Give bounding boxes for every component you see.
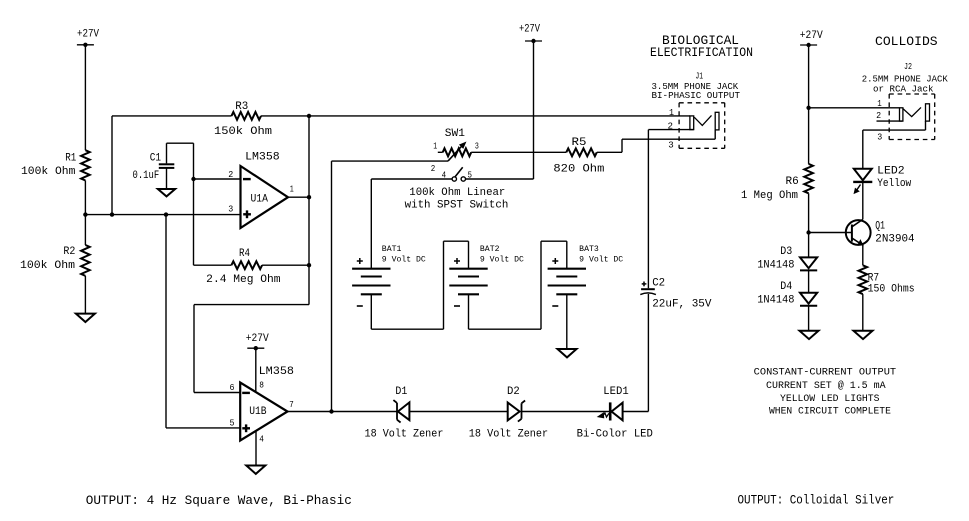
ground (below C1): [158, 189, 175, 196]
svg-text:D3: D3: [780, 246, 792, 258]
node base junction R6/D3/Q1: [806, 230, 810, 234]
svg-text:1: 1: [433, 141, 437, 151]
svg-text:0.1uF: 0.1uF: [133, 170, 160, 182]
svg-text:100k Ohm Linear: 100k Ohm Linear: [409, 187, 505, 199]
label BIOLOGICAL ELECTRIFICATION: [650, 33, 753, 60]
resistor R5: [553, 137, 604, 175]
ground (below D4): [800, 331, 819, 339]
power +27V rail (center): [519, 24, 542, 180]
svg-text:3: 3: [668, 140, 674, 151]
wire R6 to base node: [808, 193, 810, 232]
svg-text:2: 2: [228, 169, 233, 180]
resistor R3: [214, 101, 272, 138]
wire J2 pin 3 to LED2 column: [863, 121, 926, 130]
wire SPST pin 4 to BAT1 +: [370, 179, 372, 269]
svg-text:2.4 Meg Ohm: 2.4 Meg Ohm: [206, 274, 281, 286]
wire R5 to J1 pin 3: [597, 130, 715, 152]
wire D3 to D4: [808, 270, 810, 292]
resistor R7: [859, 265, 915, 295]
svg-text:7: 7: [289, 399, 294, 410]
wire +27V to R1: [84, 45, 86, 150]
wire SW1 wiper down to output node: [332, 161, 449, 411]
svg-text:D1: D1: [395, 386, 407, 398]
svg-text:+27V: +27V: [800, 30, 823, 42]
svg-text:Bi-Color LED: Bi-Color LED: [577, 429, 654, 441]
node +27V/J2 pin1 junction: [806, 106, 810, 110]
resistor R1: [21, 150, 90, 180]
svg-text:1: 1: [877, 98, 882, 109]
battery BAT3: [548, 245, 624, 306]
svg-text:LM358: LM358: [245, 151, 280, 163]
svg-text:CONSTANT-CURRENT OUTPUT: CONSTANT-CURRENT OUTPUT: [754, 368, 896, 379]
svg-text:3: 3: [228, 204, 233, 215]
battery BAT2: [449, 245, 524, 306]
power +27V rail (left): [77, 29, 99, 48]
wire base node to Q1 base: [809, 232, 852, 234]
diode D1 18V zener: [365, 386, 444, 440]
svg-text:2: 2: [431, 164, 436, 174]
capacitor C1: [133, 143, 194, 189]
switch SW1 SPST contacts: [371, 167, 533, 181]
node pin2 junction: [191, 177, 195, 181]
ground (below U1B): [246, 466, 265, 474]
ground (below R2): [76, 314, 95, 322]
svg-text:BI-PHASIC OUTPUT: BI-PHASIC OUTPUT: [652, 91, 741, 101]
svg-text:1: 1: [290, 184, 294, 195]
node B junction R3/output column: [307, 114, 311, 118]
wire U1A pin 1 output: [288, 195, 311, 199]
node pin7/SW1 junction: [329, 409, 333, 413]
svg-text:5: 5: [230, 417, 235, 428]
svg-text:4: 4: [259, 434, 264, 445]
wire BAT2 - to BAT3 +: [469, 241, 567, 329]
svg-text:150 Ohms: 150 Ohms: [868, 283, 915, 295]
diode D3 1N4148: [757, 246, 817, 271]
svg-text:100k Ohm: 100k Ohm: [20, 260, 75, 272]
label output colloidal silver: [738, 492, 895, 507]
svg-text:WHEN CIRCUIT COMPLETE: WHEN CIRCUIT COMPLETE: [769, 407, 891, 418]
label COLLOIDS: [875, 34, 938, 49]
wire U1B pin 7 output: [288, 411, 398, 413]
svg-text:D2: D2: [507, 386, 520, 398]
connector J1 3.5mm phone jack: [652, 72, 741, 151]
power +27V (U1B pin 8): [246, 333, 269, 393]
wire LED2 to Q1 collector: [862, 182, 864, 220]
svg-text:2.5MM PHONE JACK: 2.5MM PHONE JACK: [862, 74, 948, 84]
potentiometer SW1: [405, 128, 509, 212]
svg-text:2: 2: [668, 120, 674, 131]
wire +27V down to R6: [808, 45, 810, 164]
svg-text:R1: R1: [65, 152, 76, 164]
svg-text:9 Volt DC: 9 Volt DC: [382, 256, 426, 265]
svg-text:1: 1: [669, 107, 674, 118]
svg-text:C2: C2: [652, 278, 665, 290]
svg-text:Yellow: Yellow: [877, 178, 911, 190]
svg-text:with SPST Switch: with SPST Switch: [405, 200, 509, 212]
wire U1B pin 4 to ground: [255, 431, 257, 466]
resistor R6: [741, 164, 813, 202]
svg-text:R6: R6: [786, 176, 799, 188]
svg-text:150k Ohm: 150k Ohm: [214, 126, 272, 138]
svg-text:3: 3: [877, 132, 882, 143]
svg-text:J2: J2: [904, 62, 912, 72]
svg-text:U1B: U1B: [249, 406, 267, 418]
wire R7 to ground: [862, 294, 864, 331]
battery BAT1: [352, 245, 426, 306]
wire LED1 up to C2 column: [623, 294, 649, 412]
wire D4 to ground: [808, 306, 810, 331]
label constant-current note: [754, 368, 896, 418]
svg-text:R2: R2: [63, 246, 75, 258]
svg-text:22uF, 35V: 22uF, 35V: [652, 299, 712, 311]
svg-text:YELLOW LED LIGHTS: YELLOW LED LIGHTS: [780, 394, 880, 405]
svg-text:CURRENT SET @ 1.5 mA: CURRENT SET @ 1.5 mA: [766, 380, 886, 392]
wire node A branch to U1B pin 5: [164, 212, 240, 427]
ground (below BAT3): [558, 349, 577, 357]
svg-text:R3: R3: [235, 101, 248, 113]
ground (below R7): [854, 331, 873, 339]
transistor Q1 2N3904: [846, 219, 915, 245]
wire C1 column down to pin2 and R4: [193, 143, 195, 265]
diode D2 18V zener: [469, 386, 548, 440]
wire C2 up to J1 pin 2: [648, 130, 693, 289]
op-amp U1B: [230, 366, 295, 445]
svg-text:BAT3: BAT3: [579, 245, 599, 254]
power +27V rail (right): [800, 30, 823, 47]
wire to J2 pin 1: [809, 107, 900, 109]
wire R2 to ground: [84, 276, 86, 314]
svg-text:8: 8: [259, 379, 264, 390]
wire output column x=309: [308, 116, 310, 305]
wire Q1 emitter to R7: [862, 245, 864, 265]
svg-text:J1: J1: [695, 72, 703, 82]
node A junction R1/R2/pin3: [83, 212, 87, 216]
svg-text:100k Ohm: 100k Ohm: [21, 166, 76, 178]
resistor R4: [194, 248, 312, 286]
svg-text:18 Volt Zener: 18 Volt Zener: [365, 429, 444, 441]
connector J2 2.5mm phone jack: [862, 62, 948, 143]
svg-text:9 Volt DC: 9 Volt DC: [480, 256, 524, 265]
capacitor C2 polarized: [640, 278, 712, 311]
wire to U1A pin 2: [194, 178, 241, 180]
svg-text:BAT1: BAT1: [382, 245, 402, 254]
svg-text:1N4148: 1N4148: [757, 260, 794, 272]
wire D1 to D2: [409, 411, 507, 413]
LED LED1 bi-color: [577, 386, 654, 440]
wire R3 to node B and on to J1 pin 1: [261, 115, 690, 117]
diode D4 1N4148: [757, 281, 817, 307]
svg-text:U1A: U1A: [251, 194, 269, 206]
wire J2 pin 3 down to LED2: [862, 130, 864, 169]
svg-text:+27V: +27V: [246, 333, 269, 345]
svg-text:D4: D4: [780, 281, 792, 293]
label output bi-phasic: [86, 493, 352, 508]
wire J2 pin 2 stub: [877, 120, 903, 122]
svg-text:6: 6: [230, 382, 235, 393]
svg-text:1 Meg Ohm: 1 Meg Ohm: [741, 190, 798, 202]
svg-text:9 Volt DC: 9 Volt DC: [579, 256, 623, 265]
svg-text:1N4148: 1N4148: [757, 295, 794, 307]
wire SW1 pin 3 to R5: [471, 151, 566, 153]
svg-text:BAT2: BAT2: [480, 245, 500, 254]
svg-text:R5: R5: [572, 137, 587, 149]
LED LED2 yellow: [853, 165, 911, 193]
svg-text:COLLOIDS: COLLOIDS: [875, 34, 938, 49]
svg-text:+27V: +27V: [77, 29, 99, 41]
wire R1 to node A: [84, 181, 86, 215]
resistor R2: [20, 215, 90, 276]
wire feedback to U1B pin 6: [194, 305, 309, 393]
wire base node down to D3: [808, 233, 810, 258]
svg-text:LED1: LED1: [603, 386, 629, 398]
wire node A to U1A pin 3: [85, 214, 240, 216]
wire R3 left leg: [110, 116, 232, 217]
svg-text:820 Ohm: 820 Ohm: [553, 163, 604, 175]
svg-text:+27V: +27V: [519, 24, 540, 36]
svg-text:R4: R4: [239, 248, 250, 260]
op-amp U1A: [228, 151, 294, 228]
svg-text:Q1: Q1: [875, 221, 885, 233]
svg-text:2: 2: [876, 110, 881, 121]
wire D2 to LED1: [522, 411, 610, 413]
svg-text:or RCA Jack: or RCA Jack: [873, 84, 934, 94]
svg-text:3: 3: [475, 141, 479, 151]
svg-text:2N3904: 2N3904: [875, 234, 915, 246]
svg-text:ELECTRIFICATION: ELECTRIFICATION: [650, 45, 753, 60]
svg-text:OUTPUT: Colloidal Silver: OUTPUT: Colloidal Silver: [738, 492, 895, 507]
wire BAT3 - to ground: [566, 294, 568, 349]
svg-text:OUTPUT: 4 Hz Square Wave, Bi-P: OUTPUT: 4 Hz Square Wave, Bi-Phasic: [86, 493, 352, 508]
svg-text:LM358: LM358: [259, 366, 294, 378]
svg-text:SW1: SW1: [445, 128, 465, 140]
svg-text:C1: C1: [150, 153, 162, 165]
wire BAT1 - to BAT2 +: [371, 241, 468, 329]
svg-text:18 Volt Zener: 18 Volt Zener: [469, 429, 548, 441]
svg-text:LED2: LED2: [877, 165, 905, 177]
